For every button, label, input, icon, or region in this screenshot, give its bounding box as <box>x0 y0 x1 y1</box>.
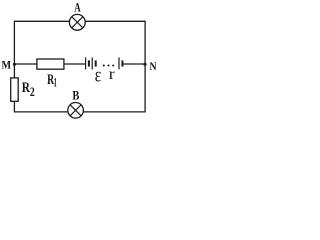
svg-text:A: A <box>74 1 80 15</box>
label r (internal resistance) <box>109 66 116 83</box>
battery cell plate short 3 <box>121 60 123 66</box>
label M <box>2 58 12 72</box>
wire left (top corner down to bottom corner, passes under R2) <box>13 21 15 113</box>
label B <box>72 88 79 102</box>
battery cell plate long 1 <box>85 57 87 69</box>
lamp B (circle with X) <box>68 103 84 119</box>
svg-text:M: M <box>2 58 12 72</box>
wire bottom (passes under lamp B) <box>14 111 145 113</box>
wire right (top corner down to bottom corner through node N) <box>144 21 146 113</box>
wire middle-left (node M to battery first plate, passes under R1) <box>14 63 86 65</box>
node N (junction dot) <box>143 63 146 66</box>
resistor R1 (box on middle wire) <box>37 59 64 69</box>
wire top (M-side corner to N-side corner, passes under lamp A) <box>14 20 145 22</box>
svg-text:1: 1 <box>54 74 57 89</box>
label R2 <box>22 80 35 99</box>
node M (junction dot) <box>13 63 16 66</box>
battery cell plate long 2 <box>91 57 93 69</box>
label R1 <box>47 72 57 89</box>
battery ellipsis dot 1 <box>103 64 105 66</box>
resistor R2 (box on left wire) <box>11 78 19 101</box>
svg-text:ε: ε <box>95 65 101 87</box>
label N <box>150 59 157 73</box>
battery ellipsis dot 3 <box>112 64 114 66</box>
battery cell plate short 2 <box>95 60 97 66</box>
label epsilon (emf) <box>95 65 101 87</box>
svg-text:r: r <box>109 66 116 83</box>
battery ellipsis dot 2 <box>107 64 109 66</box>
battery cell plate long 3 <box>118 57 120 69</box>
lamp A (circle with X) <box>69 14 85 30</box>
svg-text:2: 2 <box>30 84 35 99</box>
label A <box>74 1 80 15</box>
svg-text:N: N <box>150 59 157 73</box>
battery cell plate short 1 <box>88 60 90 66</box>
wire middle-right (battery last plate to node N) <box>122 63 145 65</box>
svg-text:B: B <box>72 88 79 102</box>
